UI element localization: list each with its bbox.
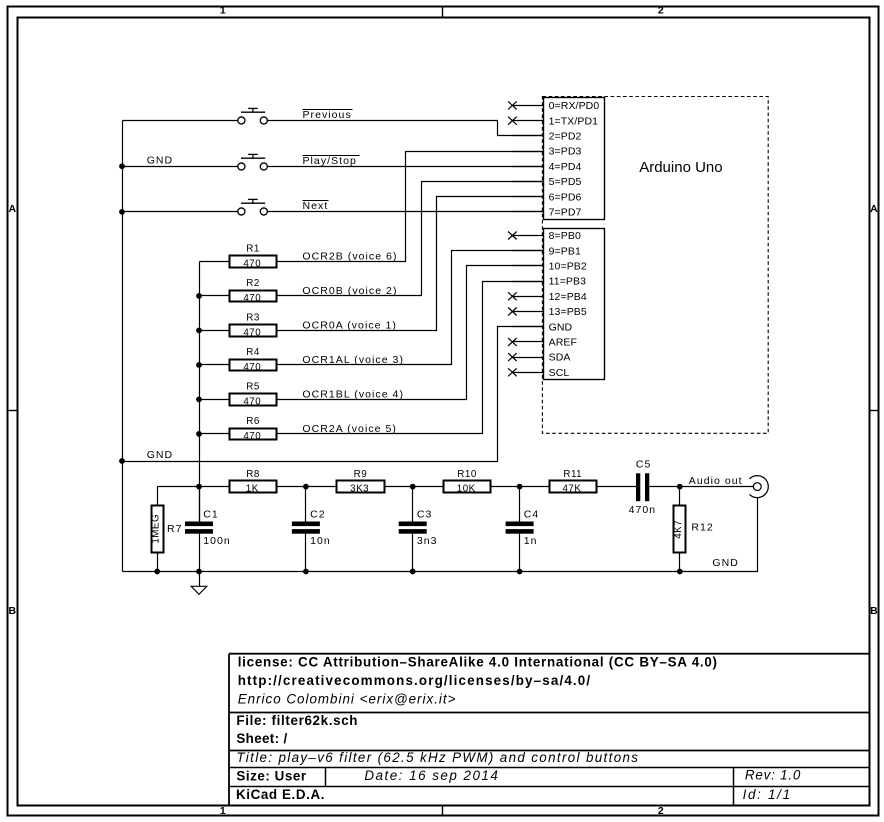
svg-text:10n: 10n xyxy=(310,535,331,547)
resistor R7 xyxy=(152,506,164,553)
pin stub 4=PD4 xyxy=(513,166,544,168)
pin stub 7=PD7 xyxy=(513,211,544,213)
svg-text:OCR2A (voice 5): OCR2A (voice 5) xyxy=(302,423,397,435)
svg-text:47K: 47K xyxy=(562,484,581,495)
resistor R10 xyxy=(444,481,491,493)
svg-text:470: 470 xyxy=(243,327,261,338)
resistor R3 xyxy=(230,325,277,337)
svg-text:Title: play–v6 filter (62.5 kH: Title: play–v6 filter (62.5 kHz PWM) and… xyxy=(236,750,639,765)
no-connect X on pin 13=PB5 xyxy=(508,308,517,316)
pushbutton SW3 (Next) xyxy=(238,199,268,215)
title block divider Size/Date xyxy=(325,768,327,787)
pin stub 0=RX/PD0 xyxy=(513,105,544,107)
resistor R5 xyxy=(230,394,277,406)
svg-text:R4: R4 xyxy=(246,347,260,358)
capacitor C1 xyxy=(185,522,213,527)
wire R1 to Arduino pin xyxy=(277,152,544,262)
svg-text:OCR0A (voice 1): OCR0A (voice 1) xyxy=(302,319,397,331)
no-connect X on pin SCL xyxy=(508,368,517,376)
no-connect X on pin 12=PB4 xyxy=(508,292,517,300)
resistor R6 xyxy=(230,429,277,440)
svg-text:KiCad E.D.A.: KiCad E.D.A. xyxy=(236,787,325,802)
wire GND bus from buttons down left side xyxy=(122,121,124,572)
wire R7 bottom xyxy=(157,553,159,572)
svg-text:Audio out: Audio out xyxy=(689,475,743,487)
svg-text:R12: R12 xyxy=(691,522,713,534)
svg-text:OCR1AL (voice 3): OCR1AL (voice 3) xyxy=(302,354,404,366)
svg-text:A: A xyxy=(870,203,878,215)
wire bus to R5 xyxy=(200,399,230,401)
junction on ground rail xyxy=(410,569,416,575)
wire filter input to R7 xyxy=(158,486,200,488)
svg-text:3=PD3: 3=PD3 xyxy=(549,146,582,158)
resistor R11 xyxy=(550,481,597,493)
svg-text:GND: GND xyxy=(147,154,173,166)
junction bus at R6 row xyxy=(196,431,202,437)
junction filter row at C4 xyxy=(517,484,523,490)
svg-text:OCR1BL (voice 4): OCR1BL (voice 4) xyxy=(302,388,404,400)
svg-text:9=PB1: 9=PB1 xyxy=(549,245,581,257)
svg-text:C2: C2 xyxy=(310,508,326,520)
no-connect X on pin AREF xyxy=(508,338,517,346)
title block divider Rev/Id xyxy=(733,768,735,806)
wire R10 to R11 xyxy=(491,486,550,488)
pin stub 3=PD3 xyxy=(513,151,544,153)
resistor R8 xyxy=(230,481,277,493)
svg-text:4=PD4: 4=PD4 xyxy=(549,161,582,173)
svg-text:R10: R10 xyxy=(457,469,477,480)
capacitor C5 xyxy=(636,473,640,501)
svg-text:3K3: 3K3 xyxy=(350,484,369,495)
svg-text:C3: C3 xyxy=(417,508,433,520)
svg-text:R2: R2 xyxy=(246,278,260,289)
svg-text:4K7: 4K7 xyxy=(673,520,684,539)
pin stub 8=PB0 xyxy=(513,235,544,237)
svg-text:Play/Stop: Play/Stop xyxy=(303,155,357,167)
wire C3 bottom xyxy=(412,534,414,572)
pin stub 12=PB4 xyxy=(513,296,544,298)
svg-text:Enrico Colombini <erix@erix.it: Enrico Colombini <erix@erix.it> xyxy=(238,692,457,707)
pin stub 1=TX/PD1 xyxy=(513,120,544,122)
junction on ground rail xyxy=(517,569,523,575)
svg-text:8=PB0: 8=PB0 xyxy=(549,230,581,242)
svg-text:http://creativecommons.org/lic: http://creativecommons.org/licenses/by–s… xyxy=(238,673,592,688)
wire bus to R6 xyxy=(200,433,230,435)
junction at GND row xyxy=(119,458,125,464)
pin stub 10=PB2 xyxy=(513,265,544,267)
wire R3 to Arduino pin xyxy=(277,197,544,331)
svg-text:GND: GND xyxy=(712,557,738,569)
svg-text:3n3: 3n3 xyxy=(417,535,438,547)
svg-text:R7: R7 xyxy=(167,523,183,535)
svg-text:B: B xyxy=(870,605,878,617)
wire bus to R1 xyxy=(200,261,230,263)
svg-text:GND: GND xyxy=(549,321,573,333)
Arduino Uno dashed outline xyxy=(542,97,768,434)
zone tick bottom xyxy=(442,806,444,816)
svg-text:10K: 10K xyxy=(457,484,476,495)
svg-text:Sheet: /: Sheet: / xyxy=(236,731,287,746)
pin stub 11=PB3 xyxy=(513,281,544,283)
svg-text:100n: 100n xyxy=(203,535,231,547)
wire C4 bottom xyxy=(519,534,521,572)
wire to switch SW3 left xyxy=(123,211,238,213)
title block separator above File xyxy=(230,712,870,714)
wire to switch SW1 left xyxy=(123,120,238,122)
resistor R12 xyxy=(674,506,686,553)
svg-text:R1: R1 xyxy=(246,244,260,255)
pin stub 2=PD2 xyxy=(513,135,544,137)
title block separator above Size row xyxy=(230,767,870,769)
svg-text:470n: 470n xyxy=(629,504,657,516)
capacitor C4 xyxy=(506,522,534,527)
svg-text:license: CC Attribution–ShareA: license: CC Attribution–ShareAlike 4.0 I… xyxy=(238,655,718,670)
resistor R2 xyxy=(230,291,277,302)
ground symbol xyxy=(191,572,207,595)
svg-text:11=PB3: 11=PB3 xyxy=(549,276,587,288)
wire R6 to Arduino pin xyxy=(277,282,544,434)
capacitor C2 xyxy=(292,522,320,527)
pin stub 6=PD6 xyxy=(513,196,544,198)
svg-text:SDA: SDA xyxy=(549,352,571,364)
svg-text:Date: 16 sep 2014: Date: 16 sep 2014 xyxy=(364,768,499,783)
wire GND row to Arduino GND pin xyxy=(123,327,544,462)
title block separator above KiCad row xyxy=(230,786,870,788)
pin stub GND xyxy=(513,326,544,328)
svg-text:R9: R9 xyxy=(354,469,368,480)
junction bus at R3 row xyxy=(196,328,202,334)
wire R9 to R10 xyxy=(385,486,444,488)
svg-text:470: 470 xyxy=(243,396,261,407)
svg-text:470: 470 xyxy=(243,431,261,442)
svg-text:5=PD5: 5=PD5 xyxy=(549,176,582,188)
pushbutton SW2 (Play/Stop) xyxy=(238,154,268,170)
svg-text:SCL: SCL xyxy=(549,367,570,379)
svg-text:B: B xyxy=(9,605,17,617)
wire R8 to R9 xyxy=(277,486,337,488)
pin stub 13=PB5 xyxy=(513,311,544,313)
svg-text:12=PB4: 12=PB4 xyxy=(549,291,587,303)
junction bus at filter input xyxy=(196,484,202,490)
svg-text:Arduino Uno: Arduino Uno xyxy=(639,159,722,176)
svg-text:2: 2 xyxy=(658,5,664,17)
junction bus at R5 row xyxy=(196,397,202,403)
pin stub 9=PB1 xyxy=(513,250,544,252)
wire R2 to Arduino pin xyxy=(277,182,544,296)
svg-text:13=PB5: 13=PB5 xyxy=(549,306,587,318)
pin stub 5=PD5 xyxy=(513,181,544,183)
connector J1 audio out xyxy=(750,476,769,498)
svg-text:OCR2B (voice 6): OCR2B (voice 6) xyxy=(302,250,397,262)
svg-text:Rev: 1.0: Rev: 1.0 xyxy=(745,768,801,783)
capacitor C3 xyxy=(399,522,427,527)
svg-text:R5: R5 xyxy=(246,382,260,393)
wire R7 top xyxy=(157,487,159,506)
wire R11 to C5 xyxy=(597,486,637,488)
junction on ground rail xyxy=(677,569,683,575)
junction on ground rail xyxy=(303,569,309,575)
wire C4 top xyxy=(519,487,521,522)
wire Previous to pin 2=PD2 xyxy=(268,121,544,136)
svg-text:R6: R6 xyxy=(246,416,260,427)
wire R4 to Arduino pin xyxy=(277,251,544,365)
svg-text:AREF: AREF xyxy=(549,337,577,349)
svg-text:Id: 1/1: Id: 1/1 xyxy=(743,787,792,802)
svg-text:Previous: Previous xyxy=(303,109,352,121)
wire C2 bottom xyxy=(305,534,307,572)
wire bus to R4 xyxy=(200,364,230,366)
svg-text:1: 1 xyxy=(220,5,226,17)
svg-text:Size: User: Size: User xyxy=(236,768,306,783)
resistor R1 xyxy=(230,256,277,268)
wire summing bus (R1-R6 left terminals) xyxy=(199,262,201,522)
wire C3 top xyxy=(412,487,414,522)
junction bus at R2 row xyxy=(196,293,202,299)
junction on ground rail xyxy=(154,569,160,575)
wire bus to R2 xyxy=(200,295,230,297)
wire ground rail xyxy=(123,498,758,572)
svg-text:1MEG: 1MEG xyxy=(151,514,162,544)
title block separator above Title xyxy=(230,750,870,752)
svg-text:7=PD7: 7=PD7 xyxy=(549,206,582,218)
svg-text:1n: 1n xyxy=(524,535,538,547)
wire C5 to audio out node xyxy=(650,486,754,488)
wire to switch SW2 left xyxy=(123,166,238,168)
svg-text:File: filter62k.sch: File: filter62k.sch xyxy=(236,713,358,728)
svg-text:C4: C4 xyxy=(524,508,540,520)
svg-text:GND: GND xyxy=(147,449,173,461)
wire C1 top xyxy=(199,487,201,522)
junction bus at R4 row xyxy=(196,362,202,368)
svg-text:R11: R11 xyxy=(563,469,582,480)
junction at Play/Stop row xyxy=(119,163,125,169)
svg-text:1=TX/PD1: 1=TX/PD1 xyxy=(549,115,599,127)
zone tick right xyxy=(870,410,879,412)
no-connect X on pin 0=RX/PD0 xyxy=(508,101,517,109)
pin stub SDA xyxy=(513,357,544,359)
wire C2 top xyxy=(305,487,307,522)
svg-text:1: 1 xyxy=(220,805,226,817)
junction on ground rail xyxy=(196,569,202,575)
wire R12 bottom xyxy=(679,553,681,572)
zone tick top xyxy=(442,7,444,18)
resistor R4 xyxy=(230,360,277,371)
svg-text:470: 470 xyxy=(243,362,261,373)
pushbutton SW1 (Previous) xyxy=(238,108,268,124)
junction at Next row xyxy=(119,209,125,215)
wire Play/Stop to pin 4=PD4 xyxy=(268,166,544,168)
pin stub SCL xyxy=(513,372,544,374)
no-connect X on pin 8=PB0 xyxy=(508,232,517,240)
junction audio out node xyxy=(677,484,683,490)
svg-text:10=PB2: 10=PB2 xyxy=(549,261,587,273)
svg-text:470: 470 xyxy=(243,293,261,304)
svg-text:A: A xyxy=(9,203,17,215)
svg-text:6=PD6: 6=PD6 xyxy=(549,191,582,203)
svg-text:OCR0B (voice 2): OCR0B (voice 2) xyxy=(302,285,397,297)
connector P1 pin box (digital 0-7) xyxy=(544,98,605,220)
wire C1 bottom xyxy=(199,534,201,572)
svg-text:2=PD2: 2=PD2 xyxy=(549,130,582,142)
svg-text:0=RX/PD0: 0=RX/PD0 xyxy=(549,100,600,112)
title block outer lines xyxy=(229,654,869,806)
svg-text:C5: C5 xyxy=(636,459,652,471)
zone tick left xyxy=(8,410,18,412)
svg-text:470: 470 xyxy=(243,258,261,269)
no-connect X on pin 1=TX/PD1 xyxy=(508,117,517,125)
svg-text:Next: Next xyxy=(303,200,329,212)
resistor R9 xyxy=(337,481,385,493)
svg-text:2: 2 xyxy=(658,805,664,817)
pin stub AREF xyxy=(513,341,544,343)
wire bus to R3 xyxy=(200,330,230,332)
junction filter row at C3 xyxy=(410,484,416,490)
svg-text:1K: 1K xyxy=(246,484,259,495)
wire bus to R8 xyxy=(200,486,230,488)
svg-text:R8: R8 xyxy=(246,469,260,480)
connector P2 pin box (digital 8-13, power) xyxy=(544,229,605,380)
wire R12 top xyxy=(679,487,681,506)
wire Next to pin 7=PD7 xyxy=(268,211,544,213)
wire R5 to Arduino pin xyxy=(277,266,544,400)
junction filter row at C2 xyxy=(303,484,309,490)
no-connect X on pin SDA xyxy=(508,353,517,361)
svg-text:C1: C1 xyxy=(203,508,219,520)
svg-text:R3: R3 xyxy=(246,313,260,324)
